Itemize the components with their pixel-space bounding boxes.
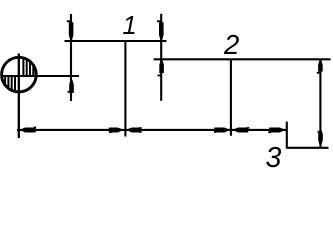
circle vertical centerline / extension line: [18, 54, 20, 139]
arrow right at x=125 on bottom dimension line: [109, 127, 122, 133]
reference line 2: [154, 58, 331, 60]
extension line at x=71: [70, 14, 72, 101]
datum target symbol B (hatched circle): [2, 54, 37, 96]
extension line at x=231: [230, 59, 232, 135]
circle horizontal centerline: [1, 75, 79, 77]
arrow right at x=287 on bottom dimension line: [268, 127, 283, 133]
arrow down onto line1 at x=161: [157, 20, 164, 39]
extension line at x=125: [124, 41, 126, 137]
extension line at x=161: [160, 14, 162, 101]
svg-text:3: 3: [266, 142, 282, 174]
arrow left at x=125 on bottom dimension line: [128, 127, 141, 133]
arrow right at x=231 on bottom dimension line: [214, 127, 228, 132]
reference line 1: [65, 40, 167, 42]
arrow down onto step line at x=320: [318, 131, 323, 145]
arrow down onto line1 at x=71: [67, 20, 74, 39]
arrow up onto line2 at x=161: [158, 60, 164, 76]
extension line at x=287: [286, 122, 288, 149]
arrow left at x=231 on bottom dimension line: [235, 127, 250, 132]
arrow up onto circle centerline at x=71: [68, 80, 74, 93]
bottom dimension line: [17, 129, 287, 131]
dimension line 3 vertical at x=320: [319, 59, 321, 148]
arrow left at x=18 on bottom dimension line: [22, 127, 36, 133]
svg-text:2: 2: [223, 29, 239, 60]
step dimension line 3: [287, 147, 329, 149]
svg-text:1: 1: [123, 12, 137, 40]
arrow up onto line2 at x=320: [317, 60, 323, 73]
